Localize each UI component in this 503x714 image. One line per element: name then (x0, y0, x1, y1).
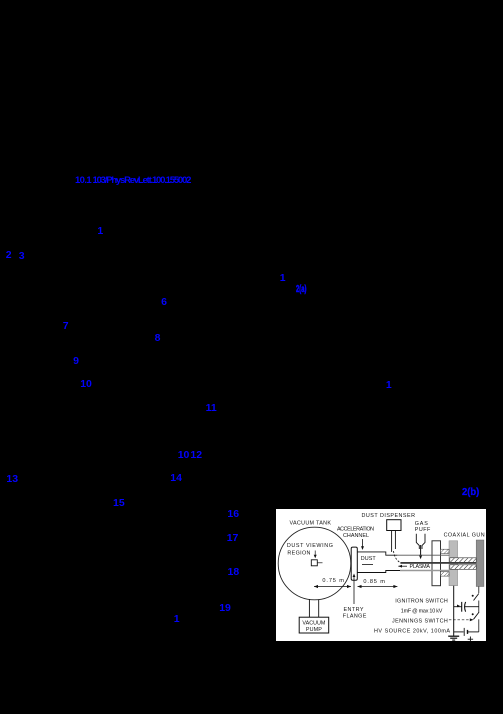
gas puff arrow (420, 545, 422, 556)
label 1b (280, 273, 286, 284)
vacuum tank circle (278, 527, 351, 600)
svg-text:1mF @ max 10 kV: 1mF @ max 10 kV (401, 609, 443, 615)
vacuum pump box (299, 617, 329, 633)
svg-text:CHANNEL: CHANNEL (343, 533, 369, 539)
label 1c (386, 380, 392, 391)
arrow to viewing region (314, 551, 316, 556)
svg-text:0.85 m: 0.85 m (363, 579, 385, 585)
dispenser feed tube (391, 531, 393, 552)
svg-text:VACUUM TANK: VACUUM TANK (290, 521, 332, 527)
dust path dashed (394, 551, 401, 563)
svg-text:DUST VIEWING: DUST VIEWING (287, 543, 333, 549)
hatched electrode bar top (450, 558, 476, 563)
label 6 (161, 297, 167, 308)
gun insulator bar (light gray) (449, 541, 458, 586)
label 8 (155, 333, 161, 344)
hatched electrode bar bottom (450, 565, 476, 570)
svg-text:DUST: DUST (361, 556, 377, 562)
label 16 (227, 509, 239, 520)
svg-text:COAXIAL GUN: COAXIAL GUN (444, 533, 485, 539)
label 1 (97, 226, 103, 237)
entry flange (351, 547, 357, 580)
svg-text:PUMP: PUMP (306, 627, 322, 633)
white background (276, 509, 486, 641)
dust viewing box symbol (311, 560, 317, 566)
svg-text:ENTRY: ENTRY (344, 607, 364, 613)
label 2(a) (296, 284, 306, 295)
svg-text:PLASMA: PLASMA (410, 564, 431, 570)
label 17 (227, 533, 239, 544)
svg-text:IGNITRON SWITCH: IGNITRON SWITCH (395, 598, 448, 604)
dim arrow 0.85m (358, 586, 398, 588)
label 13 (6, 474, 18, 485)
dashed pointer to jennings switch (449, 619, 471, 621)
label 2(b) (462, 487, 479, 498)
ground symbol (448, 635, 459, 637)
label 9 (73, 356, 79, 367)
svg-text:ACCELERATION: ACCELERATION (337, 527, 374, 533)
capacitor (454, 606, 462, 608)
dust dispenser box (387, 520, 401, 531)
svg-text:DUST DISPENSER: DUST DISPENSER (362, 513, 416, 519)
wire from insulator down (453, 586, 455, 636)
svg-text:PUFF: PUFF (415, 527, 431, 533)
figure 2(b) schematic inset (276, 509, 486, 641)
label 12 (190, 450, 202, 461)
label 11 (206, 403, 217, 414)
label 14 (170, 473, 182, 484)
acceleration channel tube (357, 552, 397, 555)
plasma arrow (398, 565, 407, 567)
ignitron switch symbol (472, 595, 474, 597)
gun end plate (dark gray) (476, 540, 484, 587)
acceleration channel pointer arrow (362, 539, 364, 547)
breech hatched block bottom (441, 572, 450, 576)
battery / HV source (454, 631, 464, 633)
label 15 (113, 498, 125, 509)
DOI link text (75, 176, 91, 186)
breech hatched block top (441, 549, 450, 553)
label 18 (228, 567, 240, 578)
svg-text:HV SOURCE 20kV, 100mA: HV SOURCE 20kV, 100mA (374, 628, 450, 634)
svg-text:VACUUM: VACUUM (302, 620, 326, 626)
label 1d (174, 614, 180, 625)
svg-text:FLANGE: FLANGE (343, 613, 367, 619)
plus sign (468, 638, 473, 640)
jennings switch symbol (472, 613, 474, 615)
gun outer barrel lines (397, 554, 449, 556)
label 2 (6, 250, 12, 261)
wire from end plate down (478, 587, 480, 594)
svg-text:JENNINGS SWITCH: JENNINGS SWITCH (392, 619, 448, 625)
entry flange pointer line (353, 576, 355, 604)
label 10b (178, 450, 190, 461)
label 10 (80, 379, 92, 390)
gas puff funnel (416, 534, 419, 549)
vacuum pump pipe (308, 599, 310, 617)
svg-text:REGION: REGION (287, 551, 310, 557)
gun breech outline box (432, 541, 441, 586)
dim arrow 0.75m (314, 586, 351, 588)
gun center electrode (400, 562, 476, 564)
label 19 (219, 603, 231, 614)
label 7 (63, 321, 69, 332)
label 3 (19, 251, 25, 262)
svg-text:0.75 m: 0.75 m (322, 578, 344, 584)
